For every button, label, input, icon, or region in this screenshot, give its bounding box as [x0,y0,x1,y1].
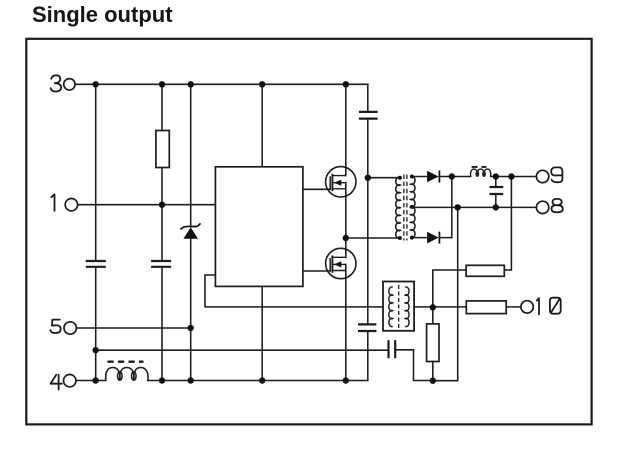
svg-text:Single output: Single output [32,2,173,27]
